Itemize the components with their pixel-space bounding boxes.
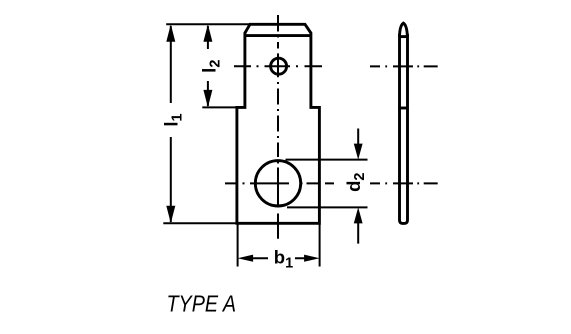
svg-text:TYPE A: TYPE A	[167, 291, 237, 317]
svg-text:b1: b1	[274, 246, 293, 271]
svg-text:l2: l2	[198, 60, 223, 73]
svg-text:d2: d2	[343, 173, 368, 192]
svg-text:l1: l1	[160, 113, 185, 126]
